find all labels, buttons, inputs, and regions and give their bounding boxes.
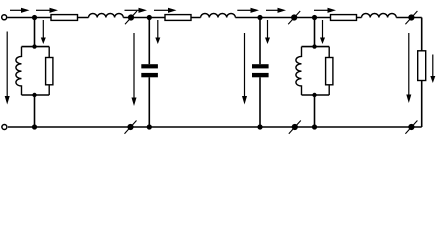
wire top rail segment 4 — [396, 17, 421, 19]
inductor L3 (series) — [362, 13, 397, 17]
section boundary marks (slashed dots) — [125, 11, 418, 134]
wire shunt branch 1 bottom bar — [22, 94, 50, 96]
voltage arrow u1 — [5, 32, 10, 105]
terminal input bottom — [2, 125, 7, 130]
resistor R2 (series) — [165, 15, 191, 21]
wire top rail segment 3 — [235, 17, 361, 19]
current arrow i6 — [266, 8, 286, 13]
current arrow iq4 — [320, 20, 325, 44]
current arrow i2 — [36, 8, 58, 13]
current arrow iq2 — [155, 20, 160, 44]
resistor RL load — [418, 51, 426, 81]
current arrow i4 — [154, 8, 177, 13]
voltage arrows (long, down) — [5, 32, 412, 107]
wire shunt branch 2 feed bottom — [314, 95, 316, 127]
current arrow i3 — [125, 8, 148, 13]
voltage arrow u4 — [406, 33, 411, 103]
current arrow iq3 — [265, 20, 270, 44]
wire capacitor C2 branch bottom — [259, 77, 261, 127]
current arrow i5 — [237, 8, 259, 13]
wire top rail segment 1 — [7, 17, 88, 19]
inductor L1 (series) — [89, 14, 124, 18]
wire shunt branch 1 top bar — [22, 46, 50, 48]
inductor Lq1 (shunt, left leg) — [16, 47, 22, 95]
terminal input top — [2, 15, 7, 20]
node mark B top — [288, 11, 300, 24]
current arrow iq1 — [41, 20, 46, 44]
node top shunt 1 — [32, 15, 37, 20]
current arrows (horizontal) — [10, 8, 336, 13]
current arrow i7 — [314, 8, 336, 13]
inductor Lq2 (shunt, left leg) — [296, 47, 302, 95]
node branch2 bar top — [312, 44, 316, 48]
wire shunt branch 1 feed top — [34, 18, 36, 47]
node bottom shunt 2 — [312, 124, 317, 129]
voltage arrow u2 — [132, 33, 137, 106]
node mark C top — [405, 11, 417, 24]
node bottom C1 — [147, 124, 152, 129]
node top C2 — [257, 15, 262, 20]
node top C1 — [147, 15, 152, 20]
resistor R3 (series) — [331, 15, 357, 21]
wire right side vertical — [421, 18, 423, 128]
capacitor C1 — [141, 64, 158, 77]
wire bottom rail — [8, 126, 422, 128]
wire shunt branch 1 right leg — [48, 47, 50, 95]
wire top rail segment 2 — [123, 17, 200, 19]
resistor Rq1 (shunt) — [46, 58, 53, 85]
wire capacitor C1 branch bottom — [148, 77, 150, 127]
shunt current arrows (short, down) — [41, 20, 436, 83]
current arrow iRL — [430, 55, 435, 84]
node bottom shunt 1 — [32, 124, 37, 129]
inductor L2 (series) — [201, 14, 236, 18]
voltage arrow u3 — [242, 33, 247, 105]
node bottom C2 — [257, 124, 262, 129]
node branch1 bar top — [32, 44, 36, 48]
node top shunt 2 — [312, 15, 317, 20]
wire shunt branch 2 feed top — [314, 18, 316, 47]
wire shunt branch 2 bottom bar — [302, 94, 330, 96]
wire capacitor C1 branch top — [148, 18, 150, 65]
node mark C bottom — [405, 121, 417, 134]
resistor Rq2 (shunt) — [326, 58, 333, 85]
wire capacitor C2 branch top — [259, 18, 261, 65]
current arrow i1 — [10, 8, 30, 13]
node mark A bottom — [125, 121, 137, 134]
wire shunt branch 2 right leg — [328, 47, 330, 95]
node branch1 bar bottom — [32, 93, 36, 97]
node mark A top — [125, 11, 137, 24]
node mark B bottom — [289, 121, 301, 134]
capacitor C2 — [252, 64, 269, 77]
wire shunt branch 1 feed bottom — [34, 95, 36, 127]
resistor R1 (series) — [51, 15, 78, 21]
wire shunt branch 2 top bar — [302, 46, 330, 48]
node branch2 bar bottom — [312, 93, 316, 97]
